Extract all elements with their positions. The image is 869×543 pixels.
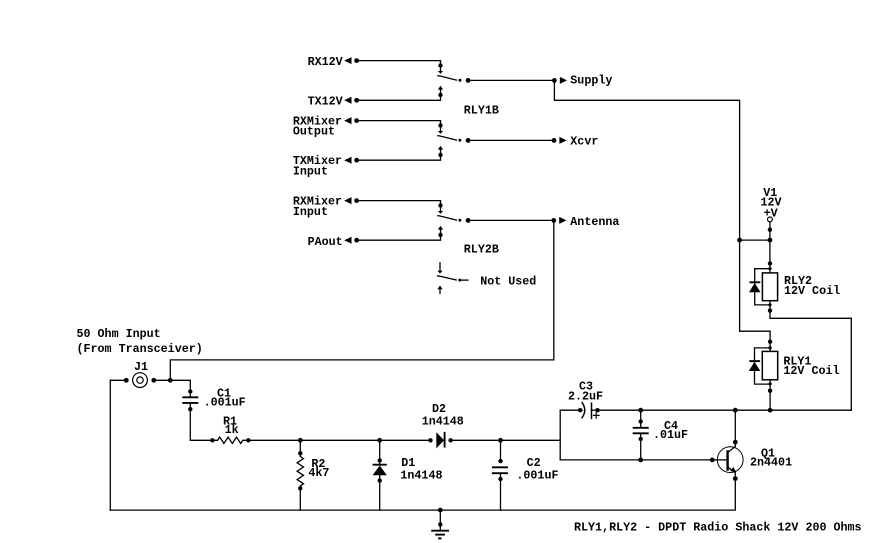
node RXMixer Input off-page connector: [293, 194, 359, 218]
relay contact RLY2B: [438, 203, 471, 237]
wire RLY2 coil bottom to collector rail: [770, 301, 851, 411]
svg-text:Not Used: Not Used: [480, 275, 536, 289]
svg-text:RLY1B: RLY1B: [464, 104, 499, 118]
wire +V to supply tie: [768, 222, 772, 240]
node C2 junction: [498, 438, 503, 443]
node TX12V off-page connector: [308, 95, 359, 109]
svg-text:RLY2B: RLY2B: [464, 243, 499, 257]
relay coil RLY1: [762, 340, 839, 393]
svg-text:2n4401: 2n4401: [750, 456, 792, 470]
wire RXMixer Input to RLY2B pin 1: [357, 201, 441, 206]
power terminal +V: [768, 217, 773, 222]
wire C1 to R1: [190, 409, 212, 440]
relay contact RLY1B pole B: [438, 123, 471, 157]
svg-text:Antenna: Antenna: [570, 215, 619, 229]
diode D2: [422, 402, 464, 448]
flyback diode across RLY2 coil: [749, 269, 770, 305]
resistor R1: [210, 414, 250, 443]
resistor R2: [297, 440, 329, 510]
wire TX12V to RLY1B pin 2: [357, 95, 441, 100]
svg-text:.01uF: .01uF: [653, 428, 688, 442]
node C4 top junction: [638, 408, 643, 413]
svg-text:Supply: Supply: [570, 74, 612, 88]
wire base node vertical: [559, 410, 561, 460]
transistor Q1: [710, 440, 792, 481]
wire PAout to RLY2B pin 2: [357, 235, 441, 240]
wire R1 to R2/D2 node: [248, 439, 300, 441]
node J1 junction: [168, 378, 173, 383]
svg-text:.001uF: .001uF: [516, 469, 558, 483]
svg-text:J1: J1: [134, 360, 148, 374]
wire node to D2: [300, 439, 430, 441]
svg-text:1n4148: 1n4148: [400, 469, 442, 483]
svg-text:RLY1,RLY2 - DPDT Radio Shack 1: RLY1,RLY2 - DPDT Radio Shack 12V 200 Ohm…: [574, 521, 862, 535]
node Xcvr off-page connector: [552, 135, 599, 149]
svg-text:1n4148: 1n4148: [422, 415, 464, 429]
svg-text:Output: Output: [293, 125, 335, 139]
diode D1: [373, 440, 443, 510]
wire C3 to collector rail: [598, 409, 852, 411]
node collector rail junction: [733, 408, 738, 413]
svg-text:4k7: 4k7: [308, 466, 329, 480]
flyback diode across RLY1 coil: [749, 348, 770, 384]
wire RLY1 coil bottom to collector rail: [769, 380, 771, 410]
capacitor C1: [182, 387, 245, 412]
wire Supply junction down and right to +V rail: [554, 80, 739, 240]
svg-text:Xcvr: Xcvr: [570, 135, 598, 149]
wire RLY1B pole B to Xcvr: [468, 139, 554, 141]
wire RLY1B pole A to Supply: [468, 79, 554, 81]
wire RX12V to RLY1B pin 1: [357, 61, 441, 66]
capacitor C4: [633, 410, 688, 460]
svg-text:50 Ohm Input: 50 Ohm Input: [77, 327, 161, 341]
node RLY1 rail junction: [768, 408, 773, 413]
svg-text:RX12V: RX12V: [308, 55, 343, 69]
wire Q1 collector to rail: [734, 410, 736, 442]
svg-text:+V: +V: [764, 206, 778, 220]
wire D2 to C2 node and base node: [451, 439, 561, 441]
wire Q1 emitter to ground rail: [110, 479, 735, 511]
svg-text:.001uF: .001uF: [204, 396, 246, 410]
node R2 junction: [298, 438, 303, 443]
node Antenna off-page connector: [551, 215, 619, 229]
relay coil RLY2: [762, 261, 840, 313]
wire supply branch to RLY1 coil: [740, 240, 771, 351]
node PAout off-page connector: [308, 235, 359, 249]
node RXMixer Output off-page connector: [293, 114, 359, 138]
capacitor C2: [492, 440, 559, 510]
svg-text:12V Coil: 12V Coil: [784, 284, 840, 298]
svg-text:Input: Input: [293, 165, 328, 179]
svg-text:(From Transceiver): (From Transceiver): [77, 342, 203, 356]
node C4 bottom junction: [638, 458, 643, 463]
svg-text:1k: 1k: [225, 423, 239, 437]
ground: [431, 508, 449, 539]
wire base wire to Q1: [560, 459, 712, 461]
svg-text:Input: Input: [293, 205, 328, 219]
node Supply off-page connector: [552, 74, 612, 88]
wire TXMixer Input to RLY1B pin 4: [357, 155, 441, 160]
wire +V tie down to RLY2 coil: [769, 240, 771, 273]
node RX12V off-page connector: [308, 55, 359, 69]
wire J1 shield to ground rail: [109, 380, 111, 510]
node D1 top junction: [377, 438, 382, 443]
wire J1 to C1: [170, 380, 190, 391]
label 50 Ohm Input: [77, 327, 203, 356]
node TXMixer Input off-page connector: [293, 154, 359, 178]
svg-text:TX12V: TX12V: [308, 95, 343, 109]
label V1 12V +V supply: [761, 186, 782, 220]
wire RLY2B pole to Antenna: [468, 219, 554, 221]
capacitor C3 (polarized): [560, 380, 603, 419]
relay contact RLY2B spare (not used): [437, 263, 468, 294]
svg-text:2.2uF: 2.2uF: [568, 390, 603, 404]
wire supply tie rail: [737, 238, 772, 243]
svg-text:PAout: PAout: [308, 235, 343, 249]
relay contact RLY1B pole A: [438, 63, 471, 97]
svg-text:12V Coil: 12V Coil: [783, 364, 839, 378]
connector J1: [110, 360, 170, 388]
wire RXMixer Output to RLY1B pin 3: [357, 121, 441, 126]
wire Antenna junction down to J1 node: [170, 220, 554, 380]
